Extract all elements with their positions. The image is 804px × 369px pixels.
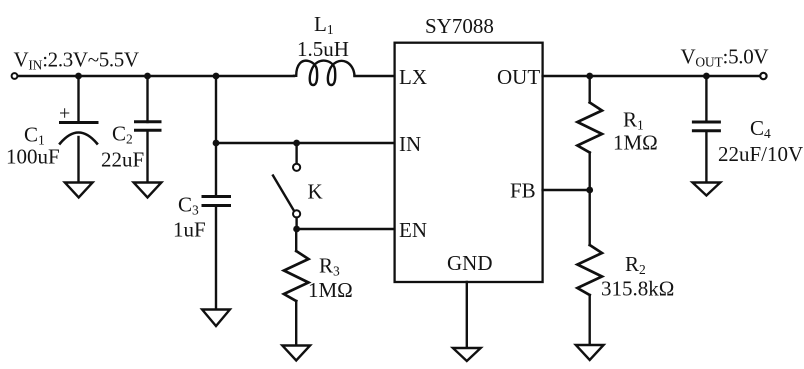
node junction dot C1 — [75, 73, 82, 80]
svg-text:OUT: OUT — [497, 65, 540, 89]
ground GND pin — [453, 348, 481, 361]
resistor R1 — [589, 76, 591, 103]
switch K upper contact — [293, 164, 300, 171]
node junction dot IN rail at C3 — [213, 140, 220, 147]
wire C1 lower — [77, 137, 79, 182]
svg-text:VOUT:5.0V: VOUT:5.0V — [681, 45, 769, 70]
svg-text:SY7088: SY7088 — [425, 14, 494, 38]
wire C4 lower — [705, 131, 707, 182]
capacitor C1 plates — [61, 121, 98, 124]
svg-text:FB: FB — [510, 179, 536, 203]
switch K arm — [273, 176, 294, 211]
wire C1 branch upper — [77, 76, 79, 122]
wire GND lead — [466, 282, 468, 348]
wire IN rail — [216, 142, 395, 144]
ground R3 — [282, 346, 310, 361]
wire OUT rail — [543, 75, 760, 77]
inductor L1 — [294, 61, 355, 85]
ground C1 — [65, 183, 93, 198]
capacitor C2 plates — [136, 120, 161, 123]
node junction dot FB — [586, 187, 593, 194]
node junction dot C4 — [703, 73, 710, 80]
node VOUT output terminal — [760, 73, 766, 79]
svg-text:22uF/10V: 22uF/10V — [718, 142, 803, 166]
svg-text:+: + — [59, 103, 70, 125]
ground C3 — [202, 310, 230, 327]
wire C4 upper — [705, 76, 707, 122]
switch K lower contact — [293, 210, 300, 217]
wire C3 lower — [215, 206, 217, 310]
capacitor C4 plates — [693, 121, 719, 124]
svg-text:K: K — [308, 180, 323, 204]
svg-text:1.5uH: 1.5uH — [297, 37, 349, 61]
wire C2 branch upper — [146, 76, 148, 122]
wire C2 lower — [146, 130, 148, 182]
wire C3 branch vertical — [215, 76, 217, 196]
resistor R2 — [589, 190, 591, 245]
wire switch upper lead — [295, 143, 297, 164]
ground C4 — [693, 183, 721, 196]
svg-text:IN: IN — [399, 132, 421, 156]
svg-text:22uF: 22uF — [101, 148, 144, 172]
node junction dot C3 — [213, 73, 220, 80]
ground R2 — [576, 345, 604, 360]
node VIN input terminal — [12, 73, 18, 79]
node junction dot R1 — [586, 73, 593, 80]
capacitor C3 plates — [203, 195, 230, 198]
wire EN rail — [297, 228, 395, 230]
svg-text:LX: LX — [399, 65, 427, 89]
node junction dot EN — [293, 226, 300, 233]
node junction dot switch branch — [293, 140, 300, 147]
svg-text:315.8kΩ: 315.8kΩ — [601, 277, 674, 301]
svg-text:1MΩ: 1MΩ — [308, 278, 353, 302]
ground C2 — [134, 183, 162, 198]
wire switch lower lead — [295, 218, 297, 230]
resistor R3 — [295, 229, 297, 251]
wire L1 to LX — [355, 75, 395, 77]
svg-text:GND: GND — [447, 251, 493, 275]
node junction dot C2 — [144, 73, 151, 80]
op-amp U1 SY7088 box — [395, 43, 543, 282]
svg-text:100uF: 100uF — [6, 145, 60, 169]
wire FB rail — [543, 189, 590, 191]
wire top rail input — [18, 75, 294, 77]
svg-text:1uF: 1uF — [173, 218, 206, 242]
svg-text:1MΩ: 1MΩ — [613, 131, 658, 155]
svg-text:EN: EN — [399, 218, 427, 242]
